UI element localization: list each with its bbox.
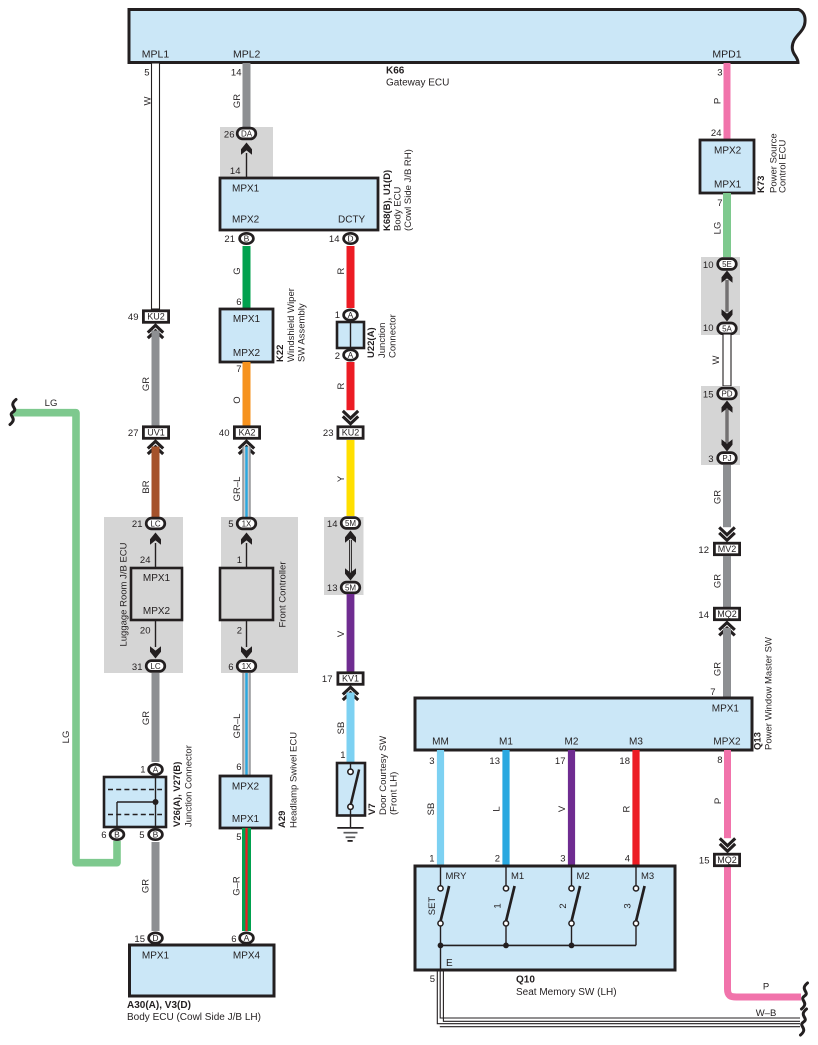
svg-text:GR: GR	[713, 574, 724, 588]
svg-text:KU2: KU2	[342, 428, 360, 438]
svg-text:KV1: KV1	[342, 674, 359, 684]
svg-text:3: 3	[429, 756, 434, 767]
svg-text:A: A	[153, 765, 159, 775]
svg-text:DCTY: DCTY	[338, 215, 366, 226]
svg-text:GR–L: GR–L	[232, 714, 243, 739]
svg-text:A29: A29	[277, 811, 288, 828]
inline chevrons below KA2	[239, 441, 254, 448]
svg-text:MM: MM	[432, 737, 449, 748]
connector B 6	[110, 829, 124, 839]
svg-text:Gateway ECU: Gateway ECU	[386, 78, 449, 89]
svg-text:7: 7	[710, 687, 715, 698]
wire R from U22 A2 to KU2	[347, 362, 355, 410]
connector PD 15	[718, 388, 737, 399]
connector LC 21	[146, 518, 165, 529]
wire R from Q13 M3 to seat memory SW	[632, 750, 639, 866]
connector 5A 10	[718, 323, 737, 334]
break squiggle at P right end	[802, 983, 808, 1009]
wire R from DCTY to U22 A1	[347, 246, 355, 308]
bus bar dashes	[108, 789, 162, 791]
svg-text:26: 26	[224, 130, 235, 141]
svg-text:3: 3	[622, 903, 633, 908]
svg-text:MV2: MV2	[718, 544, 737, 554]
svg-text:M3: M3	[641, 871, 654, 882]
svg-text:Front Controller: Front Controller	[278, 562, 289, 628]
wire GR-L from KA2 to front controller	[242, 447, 250, 518]
inline chevrons above MQ2 15	[720, 838, 735, 845]
PD/PJ junction grey block	[701, 386, 740, 465]
svg-text:GR: GR	[141, 377, 152, 391]
wire GR from B5 to body ECU D	[152, 842, 160, 931]
gateway ECU K66 box	[129, 10, 805, 63]
svg-text:MPL1: MPL1	[142, 49, 170, 61]
svg-text:MPX1: MPX1	[143, 573, 171, 584]
svg-text:(Front LH): (Front LH)	[389, 772, 400, 815]
body ECU K68 box	[220, 178, 378, 230]
svg-text:M1: M1	[511, 871, 524, 882]
connector 5M 14	[341, 518, 360, 529]
arrow into LC 31	[150, 646, 161, 658]
svg-text:2: 2	[495, 854, 500, 865]
switch MRY in Q10	[440, 866, 442, 886]
svg-text:Connector: Connector	[388, 314, 399, 358]
connector KA2 40	[234, 427, 259, 439]
connector PJ 3	[718, 453, 737, 464]
front controller grey block	[221, 517, 298, 673]
wire SB from Q13 MM to seat memory SW	[437, 750, 444, 866]
wire BR from UV1 to Luggage Room LC	[152, 447, 160, 518]
svg-text:14: 14	[231, 68, 242, 79]
wire GR from MQ2 to Q13 MPX1	[723, 628, 731, 698]
svg-text:17: 17	[322, 674, 333, 685]
svg-text:D: D	[347, 234, 353, 244]
svg-text:5M: 5M	[345, 583, 356, 592]
svg-text:5A: 5A	[722, 324, 732, 333]
svg-text:V7: V7	[367, 803, 378, 815]
svg-text:MPX1: MPX1	[142, 951, 170, 962]
svg-text:G: G	[232, 267, 243, 274]
5M junction grey block	[324, 517, 364, 595]
svg-text:6: 6	[101, 830, 106, 841]
svg-text:P: P	[713, 798, 724, 804]
svg-text:5: 5	[228, 519, 233, 530]
svg-text:Door Courtesy SW: Door Courtesy SW	[378, 736, 389, 815]
inline chevrons above KU2 23	[343, 411, 358, 418]
inline chevrons below MQ2	[719, 623, 735, 630]
svg-text:10: 10	[703, 323, 714, 334]
connector A 6	[240, 933, 254, 943]
front controller inner box	[220, 568, 273, 620]
svg-text:MPX1: MPX1	[712, 704, 740, 715]
svg-text:MPX1: MPX1	[233, 314, 261, 325]
connector D 15	[149, 933, 163, 943]
seat memory SW Q10 box	[415, 866, 675, 970]
svg-text:17: 17	[555, 756, 566, 767]
svg-text:Windshield Wiper: Windshield Wiper	[286, 288, 297, 362]
svg-text:MPX1: MPX1	[714, 180, 742, 191]
wire W from MPL1 pin 5 to KU2	[152, 63, 160, 309]
svg-text:1: 1	[492, 903, 503, 908]
svg-text:1: 1	[340, 750, 345, 761]
svg-text:40: 40	[219, 428, 230, 439]
svg-text:5: 5	[139, 830, 144, 841]
junction connector V26/V27 box	[104, 777, 166, 827]
svg-text:5M: 5M	[345, 519, 356, 528]
svg-text:5: 5	[144, 68, 149, 79]
svg-text:14: 14	[230, 166, 241, 177]
svg-text:1X: 1X	[242, 662, 252, 671]
svg-text:MPX1: MPX1	[232, 814, 260, 825]
svg-text:Q13: Q13	[753, 732, 764, 750]
svg-text:15: 15	[703, 390, 714, 401]
inline chevrons below KU2	[148, 325, 163, 332]
wire G-R from A29 to body ECU A	[242, 828, 251, 931]
svg-text:R: R	[336, 267, 347, 274]
svg-text:MPX1: MPX1	[232, 184, 260, 195]
svg-text:MRY: MRY	[446, 871, 468, 882]
switch M1 in Q10	[505, 866, 507, 886]
svg-text:12: 12	[698, 545, 709, 556]
svg-text:24: 24	[711, 128, 722, 139]
cowl side RH grey block	[220, 127, 273, 178]
wire L from Q13 M1 to seat memory SW	[502, 750, 509, 866]
svg-text:13: 13	[489, 756, 500, 767]
wire O from K22 to KA2	[243, 362, 251, 426]
luggage room J/B ECU grey block	[104, 517, 183, 673]
svg-text:L: L	[492, 806, 503, 811]
svg-text:GR: GR	[713, 490, 724, 504]
svg-text:MPL2: MPL2	[233, 49, 261, 61]
svg-text:GR: GR	[141, 711, 152, 725]
svg-text:14: 14	[327, 519, 338, 530]
svg-text:5E: 5E	[722, 260, 732, 269]
svg-text:M2: M2	[565, 737, 579, 748]
svg-text:B: B	[244, 234, 250, 244]
svg-text:V: V	[336, 630, 347, 637]
connector 5M 13	[341, 582, 360, 593]
wire GR from LC 31 to junction connector A	[152, 673, 160, 762]
svg-text:UV1: UV1	[147, 428, 165, 438]
svg-text:LC: LC	[150, 519, 160, 528]
svg-text:MPX2: MPX2	[233, 348, 261, 359]
switch M3 in Q10	[635, 866, 637, 886]
svg-text:5: 5	[236, 832, 241, 843]
connector LC 31	[146, 661, 165, 672]
svg-text:31: 31	[132, 662, 143, 673]
svg-text:49: 49	[128, 312, 139, 323]
windshield wiper SW K22 box	[220, 309, 273, 362]
svg-text:Power Window Master SW: Power Window Master SW	[764, 637, 775, 750]
svg-text:MPX2: MPX2	[714, 146, 742, 157]
arrow into DA	[241, 143, 252, 155]
double arrow between 5M connectors	[345, 531, 356, 543]
svg-text:6: 6	[228, 662, 233, 673]
svg-text:7: 7	[236, 364, 241, 375]
svg-text:LC: LC	[150, 662, 160, 671]
svg-text:10: 10	[703, 260, 714, 271]
wire P from Q13 MPX2 to MQ2 and right break	[724, 750, 731, 838]
svg-text:MPX2: MPX2	[232, 215, 260, 226]
svg-text:6: 6	[231, 934, 236, 945]
svg-text:U22(A): U22(A)	[366, 327, 377, 358]
inline chevrons below UV1	[148, 441, 163, 448]
svg-text:DA: DA	[241, 129, 253, 138]
svg-text:E: E	[446, 958, 453, 969]
svg-text:R: R	[336, 382, 347, 389]
svg-text:15: 15	[699, 856, 710, 867]
svg-text:V: V	[557, 805, 568, 812]
wire GR-L from front controller to headlamp swivel ECU	[242, 673, 250, 776]
svg-text:14: 14	[329, 234, 340, 245]
connector A 1 of V26	[149, 764, 163, 774]
svg-text:A: A	[244, 933, 250, 943]
wire W from 5A to PD	[723, 334, 731, 386]
svg-text:4: 4	[625, 854, 630, 865]
wire Y from KU2 to 5M	[347, 440, 355, 516]
double arrow between 5E and 5A	[722, 271, 733, 283]
connector KU2 49	[143, 311, 168, 323]
5E/5A junction grey block	[701, 257, 740, 335]
connector 1X 6	[237, 661, 256, 672]
svg-text:GR–L: GR–L	[232, 477, 243, 502]
svg-text:MPD1: MPD1	[712, 49, 741, 61]
svg-text:LG: LG	[61, 731, 72, 744]
connector A 2 of U22	[344, 350, 358, 360]
svg-text:MQ2: MQ2	[717, 855, 737, 865]
break squiggle at LG left end	[10, 400, 16, 425]
svg-text:KU2: KU2	[147, 312, 165, 322]
svg-text:3: 3	[560, 854, 565, 865]
svg-text:K22: K22	[275, 345, 286, 362]
connector A 1 of U22	[344, 310, 358, 320]
break squiggle at W-B right end	[801, 1009, 807, 1035]
connector DA 26	[237, 128, 256, 139]
inline chevrons below KV1	[343, 687, 358, 694]
svg-text:Q10: Q10	[516, 975, 535, 986]
svg-text:Body ECU: Body ECU	[393, 187, 404, 231]
svg-text:6: 6	[236, 297, 241, 308]
svg-text:KA2: KA2	[238, 428, 255, 438]
svg-text:20: 20	[140, 626, 151, 637]
svg-text:7: 7	[717, 198, 722, 209]
connector MQ2 14	[714, 608, 739, 620]
svg-text:1: 1	[429, 854, 434, 865]
svg-text:SET: SET	[427, 897, 438, 916]
svg-text:A: A	[348, 310, 354, 320]
svg-text:D: D	[152, 933, 158, 943]
wire GR from PJ to MV2	[723, 465, 731, 527]
svg-text:GR: GR	[141, 879, 152, 893]
svg-text:2: 2	[558, 903, 569, 908]
svg-text:1: 1	[140, 765, 145, 776]
wire V from Q13 M2 to seat memory SW	[568, 750, 575, 866]
inline chevrons above MV2	[719, 527, 735, 534]
switch M2 in Q10	[571, 866, 573, 886]
wire LG from K73 to 5E	[723, 193, 731, 257]
svg-text:3: 3	[717, 68, 722, 79]
svg-text:1: 1	[237, 555, 242, 566]
wire GR from MV2 to MQ2	[723, 556, 731, 607]
svg-text:Seat Memory SW (LH): Seat Memory SW (LH)	[516, 987, 617, 998]
svg-text:15: 15	[134, 934, 145, 945]
svg-text:MPX2: MPX2	[232, 782, 260, 793]
svg-text:W: W	[143, 96, 154, 105]
connector D 14	[344, 233, 358, 243]
connector B 21	[240, 233, 254, 243]
svg-text:PJ: PJ	[722, 454, 731, 463]
svg-text:MPX4: MPX4	[233, 951, 261, 962]
svg-text:8: 8	[717, 755, 722, 766]
svg-text:SW Assembly: SW Assembly	[297, 303, 308, 362]
svg-text:Control ECU: Control ECU	[778, 140, 789, 193]
wire W-B from Q10 to right break (lower)	[437, 970, 800, 1027]
svg-text:MPX2: MPX2	[713, 737, 741, 748]
svg-text:M1: M1	[499, 737, 513, 748]
internal wiring of junction connector	[155, 777, 157, 827]
wire SB from KV1 to door courtesy SW	[347, 693, 355, 764]
svg-text:Headlamp Swivel ECU: Headlamp Swivel ECU	[289, 732, 300, 828]
svg-text:BR: BR	[141, 480, 152, 493]
svg-text:6: 6	[236, 762, 241, 773]
arrow into 1X 6	[241, 646, 252, 658]
svg-text:GR: GR	[713, 662, 724, 676]
svg-text:Junction: Junction	[377, 323, 388, 358]
svg-text:24: 24	[140, 555, 151, 566]
wire V from 5M to KV1	[347, 594, 355, 672]
svg-text:B: B	[114, 830, 120, 840]
wire G from B21 to wiper SW	[243, 246, 251, 309]
svg-text:V26(A), V27(B): V26(A), V27(B)	[172, 762, 183, 827]
svg-text:SB: SB	[336, 722, 347, 735]
svg-text:K73: K73	[756, 176, 767, 193]
arrow into 1X 5	[241, 533, 252, 545]
svg-text:1: 1	[335, 310, 340, 321]
svg-text:K68(B), U1(D): K68(B), U1(D)	[382, 170, 393, 231]
svg-text:M2: M2	[577, 871, 590, 882]
svg-text:13: 13	[327, 583, 338, 594]
svg-text:LG: LG	[45, 398, 58, 409]
svg-text:MPX2: MPX2	[143, 606, 171, 617]
power window master SW Q13 box	[415, 698, 752, 750]
svg-text:P: P	[763, 982, 769, 993]
wire GR from MPL2 to DA	[243, 63, 251, 127]
connector 1X 5	[237, 518, 256, 529]
svg-text:Body ECU (Cowl Side J/B LH): Body ECU (Cowl Side J/B LH)	[127, 1012, 261, 1023]
svg-text:(Cowl Side J/B RH): (Cowl Side J/B RH)	[403, 149, 414, 231]
svg-text:PD: PD	[721, 389, 732, 398]
wire GR from KU2 to UV1	[152, 331, 160, 427]
svg-text:18: 18	[619, 756, 630, 767]
common bus in Q10	[441, 944, 637, 946]
connector MQ2 15	[714, 854, 739, 866]
svg-text:W: W	[711, 355, 722, 364]
wire W-B from Q10 E to right break (upper)	[440, 970, 800, 1021]
svg-text:3: 3	[708, 454, 713, 465]
svg-text:O: O	[232, 396, 243, 403]
wire from bus to pin E	[440, 945, 442, 970]
svg-text:MQ2: MQ2	[717, 609, 737, 619]
wire LG from left break to junction connector B6	[13, 413, 117, 863]
svg-text:LG: LG	[713, 222, 724, 235]
svg-text:B: B	[153, 830, 159, 840]
junction connector U22 box	[337, 322, 364, 348]
door courtesy SW V7 box	[337, 763, 365, 816]
connector UV1 27	[143, 427, 168, 439]
connector MV2 12	[714, 543, 739, 555]
svg-text:K66: K66	[386, 66, 405, 77]
svg-text:P: P	[713, 98, 724, 104]
svg-text:2: 2	[335, 351, 340, 362]
svg-text:G–R: G–R	[232, 876, 243, 896]
wire P from MPD1 to K73	[724, 63, 731, 140]
switch contacts of V7	[350, 763, 352, 769]
connector 5E 10	[718, 259, 737, 270]
svg-text:23: 23	[323, 428, 334, 439]
ground symbol of V7	[350, 816, 352, 828]
svg-text:14: 14	[698, 610, 709, 621]
arrow into LC 21	[150, 533, 161, 545]
connector KV1 17	[338, 673, 363, 685]
svg-text:A30(A), V3(D): A30(A), V3(D)	[127, 1000, 191, 1011]
svg-text:W–B: W–B	[756, 1008, 777, 1019]
svg-text:SB: SB	[426, 803, 437, 816]
connector B 5	[149, 829, 163, 839]
svg-text:27: 27	[128, 428, 139, 439]
svg-text:21: 21	[224, 234, 235, 245]
svg-text:5: 5	[430, 974, 435, 985]
svg-text:Luggage Room J/B ECU: Luggage Room J/B ECU	[119, 542, 130, 646]
svg-text:R: R	[622, 805, 633, 812]
double arrow between PD and PJ	[722, 401, 733, 413]
svg-text:GR: GR	[232, 94, 243, 108]
svg-text:Junction Connector: Junction Connector	[184, 745, 195, 827]
svg-text:M3: M3	[629, 737, 643, 748]
svg-text:1X: 1X	[242, 519, 252, 528]
body ECU A30 box	[130, 945, 275, 996]
svg-text:A: A	[348, 350, 354, 360]
svg-text:Y: Y	[336, 475, 347, 482]
svg-text:2: 2	[237, 626, 242, 637]
svg-text:21: 21	[132, 519, 143, 530]
luggage MPX1/MPX2 inner box	[131, 568, 182, 620]
power source control ECU K73 box	[700, 140, 754, 193]
connector KU2 23	[338, 427, 363, 439]
headlamp swivel ECU A29 box	[220, 776, 271, 828]
